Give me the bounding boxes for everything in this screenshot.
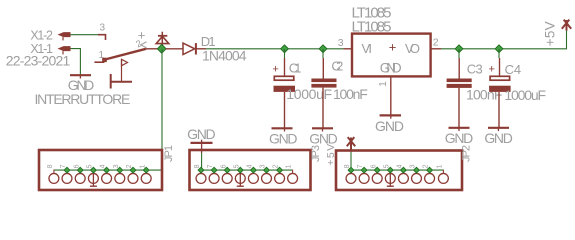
node junction at C2 bbox=[319, 45, 327, 53]
wire GND to JP3 pin 8 bbox=[201, 153, 203, 170]
supply +5V arrow above JP2 bbox=[347, 137, 355, 150]
svg-text:22-23-2021: 22-23-2021 bbox=[6, 52, 71, 68]
JP2 pads bbox=[346, 173, 448, 183]
regulator U1 LT1085 body bbox=[352, 34, 431, 77]
svg-text:GND: GND bbox=[380, 60, 402, 75]
svg-text:1: 1 bbox=[286, 164, 293, 168]
node junction at C3 bbox=[455, 45, 463, 53]
svg-text:GND: GND bbox=[445, 130, 474, 146]
supply symbol (triangle) at switch output bbox=[156, 32, 169, 47]
svg-text:X1-2: X1-2 bbox=[30, 28, 53, 42]
capacitor C2 bbox=[311, 79, 336, 88]
svg-text:2: 2 bbox=[433, 36, 439, 48]
svg-text:VI: VI bbox=[362, 41, 373, 56]
svg-text:D1: D1 bbox=[201, 34, 216, 49]
svg-text:JP3: JP3 bbox=[310, 145, 322, 162]
capacitor C2 bottom lead bbox=[322, 88, 324, 129]
node junction at switch output bbox=[157, 44, 166, 53]
svg-text:INTERRUTTORE: INTERRUTTORE bbox=[35, 91, 131, 107]
JP2 ground mark on pin 5 bbox=[387, 170, 394, 186]
svg-text:100nF: 100nF bbox=[333, 86, 368, 102]
switch S1 pivot bbox=[102, 58, 107, 62]
node junction at C4 bbox=[495, 45, 503, 53]
regulator U1 pin 1 (GND) lead bbox=[390, 77, 392, 115]
regulator U1 pin 3 (VI) bbox=[344, 48, 353, 50]
capacitor C2 top lead bbox=[322, 58, 324, 79]
connector JP3 body bbox=[190, 150, 311, 190]
svg-text:+5V: +5V bbox=[543, 21, 558, 46]
wire down to C2 bbox=[322, 49, 324, 58]
svg-text:+: + bbox=[272, 63, 278, 75]
wire down to C4 bbox=[498, 49, 500, 58]
svg-text:+: + bbox=[389, 40, 397, 55]
wire X1-1 to GND bbox=[71, 49, 81, 76]
ground symbol under U1 bbox=[380, 115, 401, 118]
pin direction chevron bbox=[141, 42, 147, 48]
svg-text:JP2: JP2 bbox=[461, 145, 473, 162]
svg-text:C1: C1 bbox=[289, 60, 302, 75]
svg-text:3: 3 bbox=[338, 37, 344, 49]
JP1 pads bbox=[49, 173, 151, 183]
JP3 pin bus wire bbox=[201, 169, 293, 171]
svg-text:GND: GND bbox=[375, 118, 404, 134]
ground symbol under C1 bbox=[272, 128, 293, 131]
JP2 pin stubs bbox=[351, 170, 443, 174]
diode D1 anode pin bbox=[166, 48, 184, 50]
JP3 pin stubs bbox=[201, 170, 293, 174]
svg-text:+: + bbox=[489, 63, 495, 75]
JP1 pin stubs bbox=[54, 170, 146, 174]
svg-text:1: 1 bbox=[378, 81, 389, 87]
JP3 ground mark on pin 5 bbox=[237, 170, 244, 186]
svg-text:GND: GND bbox=[269, 131, 298, 147]
svg-text:C2: C2 bbox=[331, 59, 343, 74]
JP1 pin bus wire bbox=[54, 169, 162, 171]
svg-text:VO: VO bbox=[405, 41, 420, 56]
wire VO to +5V corner bbox=[441, 29, 567, 49]
capacitor C4 top lead bbox=[499, 58, 501, 76]
svg-text:JP1: JP1 bbox=[163, 145, 175, 162]
capacitor C1 bottom lead bbox=[284, 92, 286, 128]
svg-text:1000uF: 1000uF bbox=[504, 87, 546, 103]
switch S1 pin 2 bbox=[146, 48, 159, 50]
connector pin X1-2 bbox=[58, 32, 71, 40]
switch S1 actuator flag bbox=[122, 59, 128, 81]
svg-text:8: 8 bbox=[47, 164, 54, 168]
connector JP1 body bbox=[39, 150, 162, 190]
ground symbol above JP3 (rotated) bbox=[191, 140, 213, 153]
ground symbol under C2 bbox=[312, 128, 333, 131]
ground symbol under X1-1 bbox=[70, 75, 91, 78]
svg-text:GND: GND bbox=[187, 126, 216, 142]
connector pin X1-1 bbox=[58, 46, 71, 54]
JP3 junction dots bbox=[198, 167, 282, 173]
connector JP2 body bbox=[336, 151, 462, 191]
wire +5V to JP2 pin 8 bbox=[350, 150, 352, 170]
switch S1 pin 1 bbox=[94, 61, 104, 63]
capacitor C3 bbox=[447, 79, 472, 88]
svg-text:3: 3 bbox=[100, 23, 106, 34]
JP3 pads bbox=[196, 173, 297, 183]
diode D1 bbox=[183, 43, 196, 54]
svg-text:C3: C3 bbox=[467, 62, 483, 77]
svg-text:1N4004: 1N4004 bbox=[202, 48, 247, 64]
JP1 junction dots bbox=[64, 167, 149, 173]
capacitor C1 top lead bbox=[284, 58, 286, 76]
switch S1 pin 3 bbox=[98, 35, 106, 40]
svg-text:1: 1 bbox=[436, 164, 443, 168]
JP2 pin numbers rotated bbox=[344, 164, 443, 168]
node junction at C1 bbox=[281, 45, 289, 53]
wire down to C1 bbox=[284, 49, 286, 58]
capacitor C4 (polarized) bbox=[489, 76, 511, 92]
JP1 ground mark on pin 5 bbox=[90, 170, 97, 186]
svg-text:C4: C4 bbox=[505, 62, 521, 77]
JP2 junction dots bbox=[348, 167, 432, 173]
switch S1 lever bbox=[105, 49, 146, 60]
JP3 pin numbers rotated bbox=[194, 164, 293, 168]
diode D1 cathode pin bbox=[196, 48, 206, 50]
wire junction down to JP1 bbox=[161, 49, 163, 170]
svg-text:GND: GND bbox=[484, 130, 512, 146]
switch S1 frame bbox=[111, 74, 132, 89]
capacitor C3 top lead bbox=[458, 58, 460, 79]
regulator U1 pin 2 (VO) bbox=[431, 48, 441, 50]
wire X1-2 to switch pin 3 bbox=[71, 34, 99, 36]
wire down to C3 bbox=[458, 49, 460, 58]
capacitor C1 (polarized) bbox=[274, 76, 296, 92]
JP1 pin numbers rotated bbox=[47, 164, 146, 168]
ground symbol under C3 bbox=[449, 128, 470, 131]
supply +5V arrow top right bbox=[562, 20, 571, 31]
capacitor C4 bottom lead bbox=[498, 92, 500, 128]
svg-text:1000uF: 1000uF bbox=[286, 86, 332, 102]
ground symbol under C4 bbox=[488, 128, 509, 131]
capacitor C3 bottom lead bbox=[458, 88, 460, 128]
wire D1 to LT1085 VI bbox=[206, 48, 344, 50]
JP2 pin bus wire bbox=[351, 169, 443, 171]
